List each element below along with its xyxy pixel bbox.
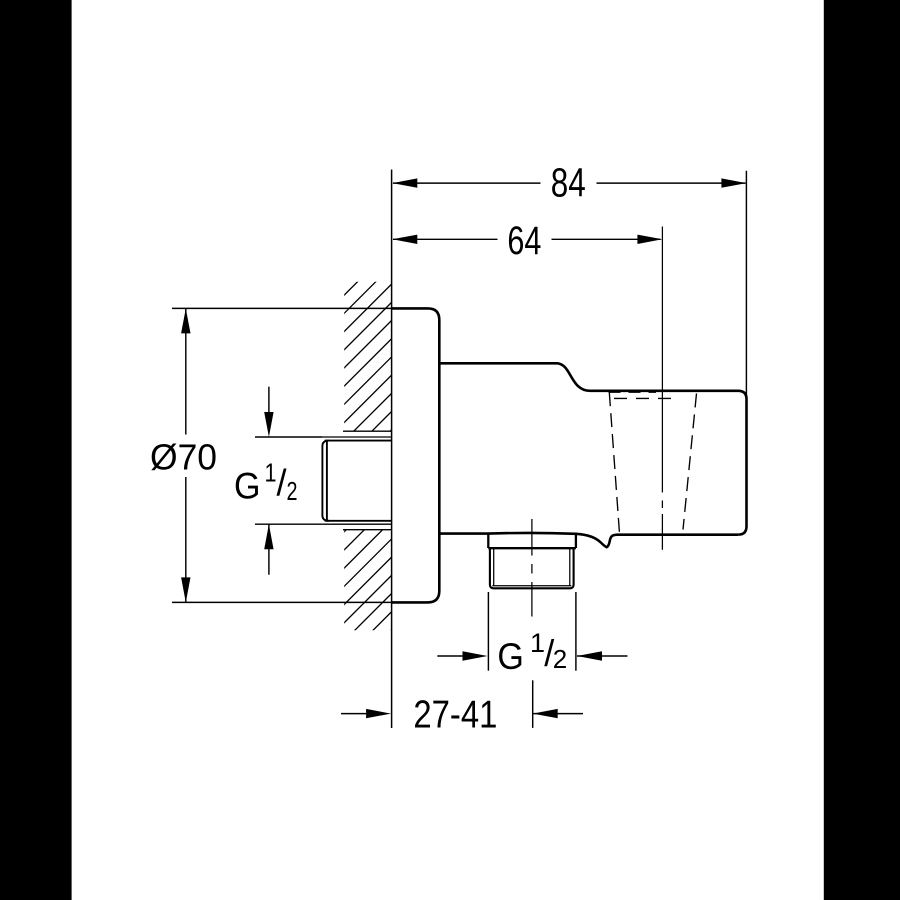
svg-text:2: 2 — [553, 644, 567, 674]
svg-text:1: 1 — [265, 457, 277, 487]
body neck and holder top outline — [439, 363, 746, 534]
outlet G1/2 dimension — [437, 592, 627, 671]
label G 1/2 outlet — [497, 628, 567, 677]
svg-text:2: 2 — [287, 476, 298, 506]
wall hatching upper band — [149, 0, 822, 600]
holder cup center line / 64 extension — [661, 227, 663, 550]
svg-text:64: 64 — [507, 219, 541, 263]
dimension 64 — [393, 238, 661, 240]
dimension 84 — [393, 171, 746, 398]
arrow 64 left — [392, 235, 417, 244]
arrow d70 bottom — [181, 577, 190, 602]
inlet thread (in wall) — [322, 437, 391, 524]
arrow 84 right — [721, 178, 746, 187]
escutcheon outline — [392, 308, 440, 602]
holder cup dashed outline — [609, 392, 697, 532]
arrow d70 top — [181, 308, 190, 333]
svg-text:G: G — [234, 464, 261, 506]
outlet flange — [488, 534, 576, 548]
inlet G1/2 dimension arrows — [255, 387, 322, 575]
outlet thread — [490, 548, 574, 588]
label G 1/2 inlet — [234, 457, 298, 506]
dimension 27-41 — [341, 680, 583, 728]
wall hole bottom edge — [343, 529, 392, 531]
arrow 27-41 left (right-pointing) — [366, 709, 391, 718]
svg-text:27-41: 27-41 — [413, 693, 497, 736]
dimension diameter 70 — [172, 308, 392, 602]
svg-text:Ø70: Ø70 — [150, 436, 217, 477]
arrow outlet G left (right-pointing) — [463, 651, 488, 660]
arrow 27-41 right (left-pointing) — [533, 709, 558, 718]
arrow inlet top (down) — [264, 412, 273, 437]
svg-text:84: 84 — [551, 160, 586, 206]
body bottom edge with drip notch — [439, 533, 738, 547]
outlet center line — [531, 519, 533, 617]
outlet thread inner lines — [492, 548, 571, 586]
arrow inlet bottom (up) — [264, 524, 273, 549]
wall surface line — [391, 170, 393, 729]
svg-text:1: 1 — [530, 628, 545, 658]
arrow outlet G right (left-pointing) — [577, 651, 602, 660]
svg-text:G: G — [497, 635, 524, 677]
arrow 84 left — [392, 178, 417, 187]
wall hole top edge — [343, 430, 392, 432]
arrow 64 right — [637, 235, 662, 244]
